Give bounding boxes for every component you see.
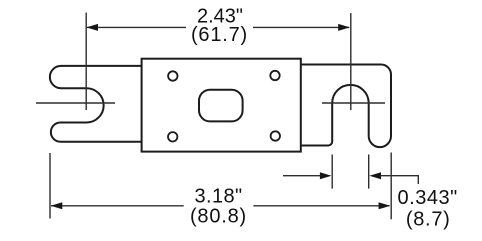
mounting hole bottom-right — [271, 131, 280, 140]
dimension line 3.18 right segment — [253, 205, 389, 207]
mounting hole bottom-left — [168, 132, 177, 141]
arrowhead 2.43 right — [338, 24, 350, 31]
left fork terminal outline — [50, 66, 142, 142]
dimension line 2.43 left segment — [87, 26, 186, 28]
svg-text:(8.7): (8.7) — [406, 208, 451, 230]
svg-text:(80.8): (80.8) — [190, 205, 247, 227]
center window (rounded rectangle) — [199, 90, 243, 122]
left terminal centerline — [36, 102, 115, 104]
arrowhead 3.18 left — [51, 202, 63, 209]
svg-text:0.343": 0.343" — [398, 187, 458, 209]
extension line right (2.43 dim, through right slot center) — [350, 13, 352, 110]
dimension line 2.43 right segment — [253, 26, 349, 28]
extension line right (3.18 dim, overall length) — [390, 153, 392, 220]
dimension line 3.18 left segment — [51, 205, 184, 207]
arrowhead 0.343 right (pointing left) — [369, 172, 381, 179]
0.343 left leader line — [283, 175, 321, 177]
arrowhead 3.18 right — [379, 202, 391, 209]
svg-text:(61.7): (61.7) — [191, 24, 248, 46]
right slotted terminal outline — [301, 65, 391, 148]
fuse body outline — [142, 59, 301, 152]
mounting hole top-left — [168, 71, 177, 80]
svg-text:3.18": 3.18" — [194, 185, 242, 207]
extension line left (2.43 dim, through left slot center) — [85, 13, 87, 111]
arrowhead 2.43 left — [86, 24, 98, 31]
0.343 right leader line — [380, 176, 418, 184]
extension line slot-right (0.343 dim) — [368, 155, 370, 189]
right terminal centerline — [322, 102, 385, 104]
arrowhead 0.343 left (pointing right) — [320, 172, 332, 179]
extension line left (3.18 dim, overall length) — [49, 153, 51, 219]
mounting hole top-right — [270, 71, 279, 80]
extension line slot-left (0.343 dim) — [331, 155, 333, 189]
